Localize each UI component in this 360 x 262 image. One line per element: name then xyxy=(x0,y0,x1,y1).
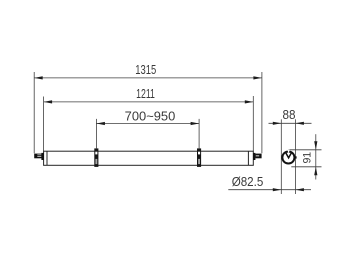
dimension 700~950 line xyxy=(96,123,199,125)
extension line left 1315 xyxy=(33,72,35,153)
suspension clamp 1 xyxy=(94,148,98,167)
arrow 91 bottom outside xyxy=(314,167,317,176)
svg-text:1211: 1211 xyxy=(136,87,155,101)
extension line right 1211 xyxy=(252,96,254,151)
extension line left 700~950 xyxy=(95,119,97,148)
arrow 1315 left xyxy=(34,76,43,79)
side nub xyxy=(295,156,297,158)
arrow 91 top outside xyxy=(314,141,317,150)
internal V notch xyxy=(286,153,292,158)
extension line left 1211 xyxy=(43,97,45,152)
svg-text:Ø82.5: Ø82.5 xyxy=(232,175,264,189)
leader line diameter 82.5 xyxy=(228,189,311,191)
svg-text:700~950: 700~950 xyxy=(125,110,176,124)
arrow diameter left outside xyxy=(273,188,282,191)
svg-text:1315: 1315 xyxy=(135,63,156,77)
dimension 1211 line xyxy=(44,101,254,103)
extension line right 700~950 xyxy=(198,119,200,148)
dimension 88 line xyxy=(269,122,312,124)
arrow 1211 left xyxy=(44,100,53,103)
dimension 91 line xyxy=(315,134,317,179)
arrow diameter right outside xyxy=(295,188,304,191)
arrow 88 right outside xyxy=(295,122,304,125)
end cap joint right xyxy=(247,151,249,165)
arrow 88 left outside xyxy=(273,122,282,125)
dimension 1315 line xyxy=(34,77,262,79)
suspension clamp 2 xyxy=(197,148,201,167)
extension line right 1315 xyxy=(261,72,263,153)
cable gland right xyxy=(253,153,262,160)
cross-section circle xyxy=(282,150,296,164)
svg-text:91: 91 xyxy=(301,152,313,164)
arrow 1211 right xyxy=(245,100,254,103)
luminaire body outline xyxy=(44,151,254,165)
arrow 700~950 right xyxy=(191,122,200,125)
arrow 1315 right xyxy=(253,76,262,79)
end cap joint left xyxy=(46,151,48,165)
svg-text:88: 88 xyxy=(283,108,296,122)
extension line left 88 xyxy=(280,119,282,194)
extension line right 88 xyxy=(294,119,296,194)
arrow 700~950 left xyxy=(96,122,105,125)
top slot white notch xyxy=(287,150,290,153)
cable gland left xyxy=(34,153,44,160)
extension line bottom 91 xyxy=(291,166,321,168)
extension line top 91 xyxy=(289,149,322,151)
arrowheads xyxy=(34,76,317,191)
